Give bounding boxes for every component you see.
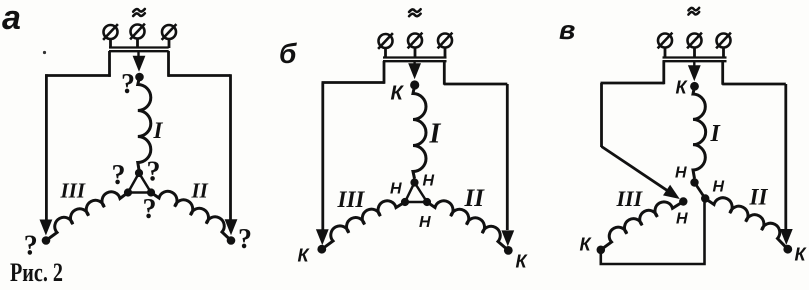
node dot triangle right [147, 188, 155, 196]
node dot triangle left [401, 198, 409, 206]
svg-text:б: б [279, 38, 297, 69]
busbar double line [383, 56, 447, 58]
AC source symbol ≈ [409, 9, 421, 12]
node dot H start of coil III [679, 197, 687, 205]
arrow from busbar middle [413, 61, 415, 67]
coil II [705, 198, 788, 249]
wire stub middle terminal to busbar [136, 39, 139, 49]
arrow to line end left [316, 229, 329, 245]
node dot triangle top [135, 169, 143, 177]
coil II [151, 191, 231, 240]
wire stub left terminal [384, 48, 387, 58]
svg-text:а: а [2, 0, 21, 37]
wire link coil I end to coil II start [695, 183, 706, 199]
arrow to line end right [780, 229, 793, 245]
wire stub left terminal [664, 48, 667, 59]
svg-text:III: III [60, 179, 86, 203]
terminal Ø right [438, 34, 452, 48]
coil I [413, 85, 426, 179]
busbar double line [109, 46, 169, 48]
svg-text:Н: Н [713, 179, 725, 196]
svg-text:II: II [464, 185, 486, 212]
svg-text:Н: Н [390, 181, 402, 198]
svg-text:I: I [153, 118, 164, 143]
node dot K top [410, 80, 419, 89]
svg-text:К: К [795, 245, 808, 265]
wire bottom link K of III to H of II [601, 199, 705, 265]
svg-text:I: I [429, 119, 442, 150]
wire stub right terminal [444, 48, 447, 58]
svg-text:?: ? [24, 231, 38, 262]
coil III [601, 202, 684, 250]
triangle connection [128, 173, 151, 193]
svg-text:?: ? [112, 160, 126, 191]
node dot left end [42, 236, 51, 245]
coil III [46, 192, 128, 241]
svg-text:III: III [616, 186, 644, 211]
svg-text:II: II [749, 185, 769, 210]
coil II [427, 201, 508, 251]
arrow to line end right [501, 230, 514, 246]
wire stub middle terminal [414, 48, 417, 59]
arrow to line end right [225, 219, 238, 235]
node dot K left [317, 245, 326, 254]
svg-text:III: III [337, 187, 366, 212]
svg-text:Н: Н [676, 211, 688, 228]
node dot triangle top [410, 178, 418, 186]
svg-text:Н: Н [423, 173, 435, 190]
node dot K coil III end [597, 246, 606, 255]
arrow from busbar middle [137, 51, 139, 62]
svg-text:К: К [516, 252, 529, 272]
svg-text:К: К [391, 83, 405, 105]
svg-text:К: К [676, 78, 689, 98]
node dot H end of coil I [690, 178, 698, 186]
wire stub right terminal [722, 48, 725, 59]
svg-text:I: I [710, 121, 722, 147]
AC source symbol ≈ [133, 9, 145, 12]
wire right frame [721, 61, 724, 85]
terminal Ø left [658, 34, 672, 48]
AC source symbol ≈ [688, 8, 699, 11]
svg-text:?: ? [121, 69, 135, 100]
busbar double line [663, 56, 727, 58]
svg-text:?: ? [147, 157, 161, 188]
wire left frame with diagonal arrow [662, 61, 665, 84]
coil I [693, 86, 706, 178]
wire right frame [443, 61, 446, 85]
node dot K top [690, 82, 699, 91]
node dot top [135, 73, 144, 82]
node dot K right [783, 245, 792, 254]
wire left frame [108, 51, 111, 77]
wire stub middle terminal [693, 48, 696, 59]
svg-text:?: ? [143, 194, 157, 225]
node dot triangle left [124, 188, 132, 196]
node dot K right [504, 246, 513, 255]
node dot right end [227, 236, 236, 245]
svg-text:II: II [191, 179, 209, 203]
terminal Ø right [162, 25, 176, 39]
svg-text:Н: Н [419, 214, 431, 231]
arrow diagonal to H of coil III [663, 185, 680, 199]
arrow from busbar middle [693, 61, 695, 68]
arrow to line end left [40, 220, 53, 236]
svg-text:в: в [559, 15, 575, 45]
wire stub right terminal to busbar [168, 39, 171, 48]
node dot triangle right [423, 198, 431, 206]
svg-text:Рис. 2: Рис. 2 [10, 258, 63, 287]
terminal Ø left [379, 34, 393, 48]
terminal Ø middle [131, 25, 145, 39]
stray dot [43, 51, 46, 54]
terminal Ø middle [688, 34, 702, 48]
svg-text:К: К [298, 246, 311, 266]
triangle connection [405, 183, 427, 203]
node dot H start of coil II [701, 194, 709, 202]
terminal Ø right [717, 34, 731, 48]
svg-text:К: К [580, 235, 593, 255]
terminal Ø left [104, 25, 118, 39]
wire right frame [167, 51, 170, 77]
coil III [322, 201, 405, 249]
svg-text:?: ? [238, 224, 252, 255]
coil I [138, 77, 151, 170]
wire stub left terminal to busbar [109, 39, 112, 48]
wire left frame [383, 61, 386, 84]
svg-text:Н: Н [675, 165, 687, 182]
terminal Ø middle [408, 34, 422, 48]
